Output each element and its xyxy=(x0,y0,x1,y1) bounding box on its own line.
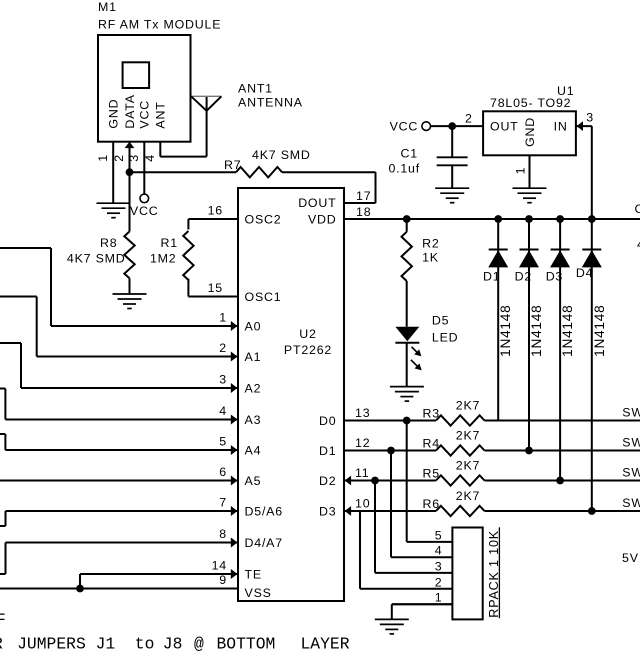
svg-text:10: 10 xyxy=(355,496,370,510)
svg-text:2: 2 xyxy=(112,154,126,162)
svg-text:GND: GND xyxy=(107,99,121,129)
svg-text:ANTENNA: ANTENNA xyxy=(238,95,303,109)
svg-text:3: 3 xyxy=(435,559,443,573)
svg-text:1: 1 xyxy=(219,311,227,325)
svg-text:TE: TE xyxy=(245,567,262,581)
svg-text:1: 1 xyxy=(96,154,110,162)
svg-text:LAYER: LAYER xyxy=(301,635,350,654)
svg-text:11: 11 xyxy=(355,466,369,480)
svg-text:D2: D2 xyxy=(515,269,532,283)
svg-text:RF AM Tx MODULE: RF AM Tx MODULE xyxy=(98,18,221,32)
svg-text:IN: IN xyxy=(554,119,568,133)
svg-text:5: 5 xyxy=(219,435,227,449)
svg-text:DOUT: DOUT xyxy=(298,196,336,210)
svg-text:1M2: 1M2 xyxy=(150,252,177,266)
svg-text:GND: GND xyxy=(523,117,537,147)
svg-text:18: 18 xyxy=(356,205,371,219)
svg-text:A1: A1 xyxy=(245,350,262,364)
svg-text:U2: U2 xyxy=(299,327,316,341)
svg-text:17: 17 xyxy=(356,189,371,203)
svg-text:A3: A3 xyxy=(245,413,262,427)
svg-text:D3: D3 xyxy=(319,504,336,518)
svg-text:14: 14 xyxy=(212,559,227,573)
svg-text:2K7: 2K7 xyxy=(456,489,480,503)
svg-text:2K7: 2K7 xyxy=(456,459,480,473)
svg-text:@: @ xyxy=(194,635,204,654)
svg-text:1N4148: 1N4148 xyxy=(592,304,607,356)
svg-text:R4: R4 xyxy=(423,436,440,450)
svg-text:VSS: VSS xyxy=(245,586,272,600)
svg-text:6: 6 xyxy=(219,465,227,479)
svg-text:DATA: DATA xyxy=(123,94,137,128)
svg-text:R7: R7 xyxy=(224,158,241,172)
svg-text:to: to xyxy=(135,635,155,654)
svg-text:R1: R1 xyxy=(161,236,178,250)
svg-text:D5/A6: D5/A6 xyxy=(245,504,283,518)
svg-text:D1: D1 xyxy=(319,444,336,458)
svg-text:5: 5 xyxy=(435,528,443,542)
svg-text:R6: R6 xyxy=(423,497,440,511)
svg-text:M1: M1 xyxy=(98,0,117,14)
svg-text:A4: A4 xyxy=(245,443,262,457)
svg-text:4: 4 xyxy=(219,404,227,418)
svg-text:2: 2 xyxy=(219,341,227,355)
svg-text:RPACK 1 10K: RPACK 1 10K xyxy=(487,530,501,618)
svg-text:J8: J8 xyxy=(163,635,183,654)
svg-text:1N4148: 1N4148 xyxy=(498,304,513,356)
svg-text:BOTTOM: BOTTOM xyxy=(217,635,276,654)
svg-text:SW1: SW1 xyxy=(622,465,640,479)
svg-text:12: 12 xyxy=(355,436,370,450)
svg-text:D5: D5 xyxy=(432,314,449,328)
svg-text:F: F xyxy=(0,611,6,630)
svg-text:5V: 5V xyxy=(622,551,639,565)
svg-text:9: 9 xyxy=(219,573,227,587)
svg-text:D4/A7: D4/A7 xyxy=(245,536,283,550)
svg-text:3: 3 xyxy=(219,373,227,387)
svg-text:16: 16 xyxy=(208,204,223,218)
svg-text:VCC: VCC xyxy=(138,100,152,129)
svg-text:ANT1: ANT1 xyxy=(238,81,273,95)
svg-text:D2: D2 xyxy=(319,474,336,488)
svg-text:A2: A2 xyxy=(245,381,262,395)
svg-text:4K7 SMD: 4K7 SMD xyxy=(67,252,126,266)
svg-text:R5: R5 xyxy=(423,466,440,480)
svg-text:A0: A0 xyxy=(245,319,262,333)
svg-text:VDD: VDD xyxy=(308,212,337,226)
svg-text:VCC: VCC xyxy=(130,204,159,218)
svg-text:78L05- TO92: 78L05- TO92 xyxy=(490,96,571,110)
svg-text:1: 1 xyxy=(513,167,527,175)
svg-text:15: 15 xyxy=(208,281,223,295)
svg-text:CO: CO xyxy=(635,202,640,216)
svg-text:D0: D0 xyxy=(319,414,336,428)
svg-text:4: 4 xyxy=(435,544,443,558)
svg-text:C1: C1 xyxy=(401,147,418,161)
svg-text:4K7 SMD: 4K7 SMD xyxy=(252,148,311,162)
svg-text:0.1uf: 0.1uf xyxy=(388,161,420,175)
svg-text:R2: R2 xyxy=(422,236,439,250)
svg-text:13: 13 xyxy=(355,406,370,420)
svg-text:PT2262: PT2262 xyxy=(284,343,332,357)
svg-text:1N4148: 1N4148 xyxy=(529,304,544,356)
svg-text:1K: 1K xyxy=(422,250,439,264)
svg-text:1N4148: 1N4148 xyxy=(560,304,575,356)
svg-text:2K7: 2K7 xyxy=(456,429,480,443)
svg-text:ANT: ANT xyxy=(154,101,168,128)
svg-text:2: 2 xyxy=(435,575,443,589)
svg-text:2K7: 2K7 xyxy=(456,399,480,413)
svg-text:R8: R8 xyxy=(100,236,117,250)
svg-text:3: 3 xyxy=(586,110,594,124)
svg-text:D1: D1 xyxy=(483,269,500,283)
svg-text:OSC1: OSC1 xyxy=(245,290,282,304)
svg-text:LED: LED xyxy=(432,330,459,344)
svg-text:A5: A5 xyxy=(245,474,262,488)
svg-text:1: 1 xyxy=(435,591,443,605)
svg-text:SW1: SW1 xyxy=(622,496,640,510)
svg-text:J1: J1 xyxy=(96,635,116,654)
svg-text:R: R xyxy=(0,635,3,654)
svg-text:OUT: OUT xyxy=(490,119,519,133)
svg-text:D3: D3 xyxy=(546,269,563,283)
svg-text:2: 2 xyxy=(465,111,473,125)
svg-text:VCC: VCC xyxy=(390,120,419,134)
svg-text:4: 4 xyxy=(143,154,157,162)
svg-text:3: 3 xyxy=(127,154,141,162)
svg-text:7: 7 xyxy=(219,496,227,510)
svg-text:8: 8 xyxy=(219,527,227,541)
svg-text:D4: D4 xyxy=(576,266,593,280)
svg-text:SW1: SW1 xyxy=(622,405,640,419)
svg-text:R3: R3 xyxy=(423,406,440,420)
svg-text:OSC2: OSC2 xyxy=(245,212,282,226)
svg-text:JUMPERS: JUMPERS xyxy=(17,635,86,654)
svg-text:SW1: SW1 xyxy=(622,435,640,449)
